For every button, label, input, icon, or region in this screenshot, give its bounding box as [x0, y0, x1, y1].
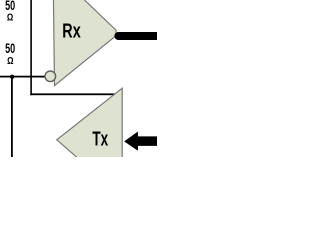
wire horizontal to Rx node [0, 76, 46, 78]
svg-text:Ω: Ω [7, 55, 13, 67]
svg-text:Rx: Rx [62, 21, 80, 43]
op-amp Rx [53, 0, 116, 86]
svg-text:Tx: Tx [92, 128, 108, 150]
wire vertical left bus [30, 0, 32, 95]
wire horizontal to Tx input [30, 93, 114, 95]
wire vertical from junction down [11, 77, 13, 157]
junction dot [10, 75, 14, 79]
Tx input arrow [124, 132, 157, 151]
svg-text:Ω: Ω [7, 12, 13, 24]
Rx output thick bar [114, 32, 157, 40]
node circle on Rx input [45, 71, 56, 82]
op-amp Tx [57, 88, 122, 197]
svg-text:50: 50 [5, 41, 15, 56]
